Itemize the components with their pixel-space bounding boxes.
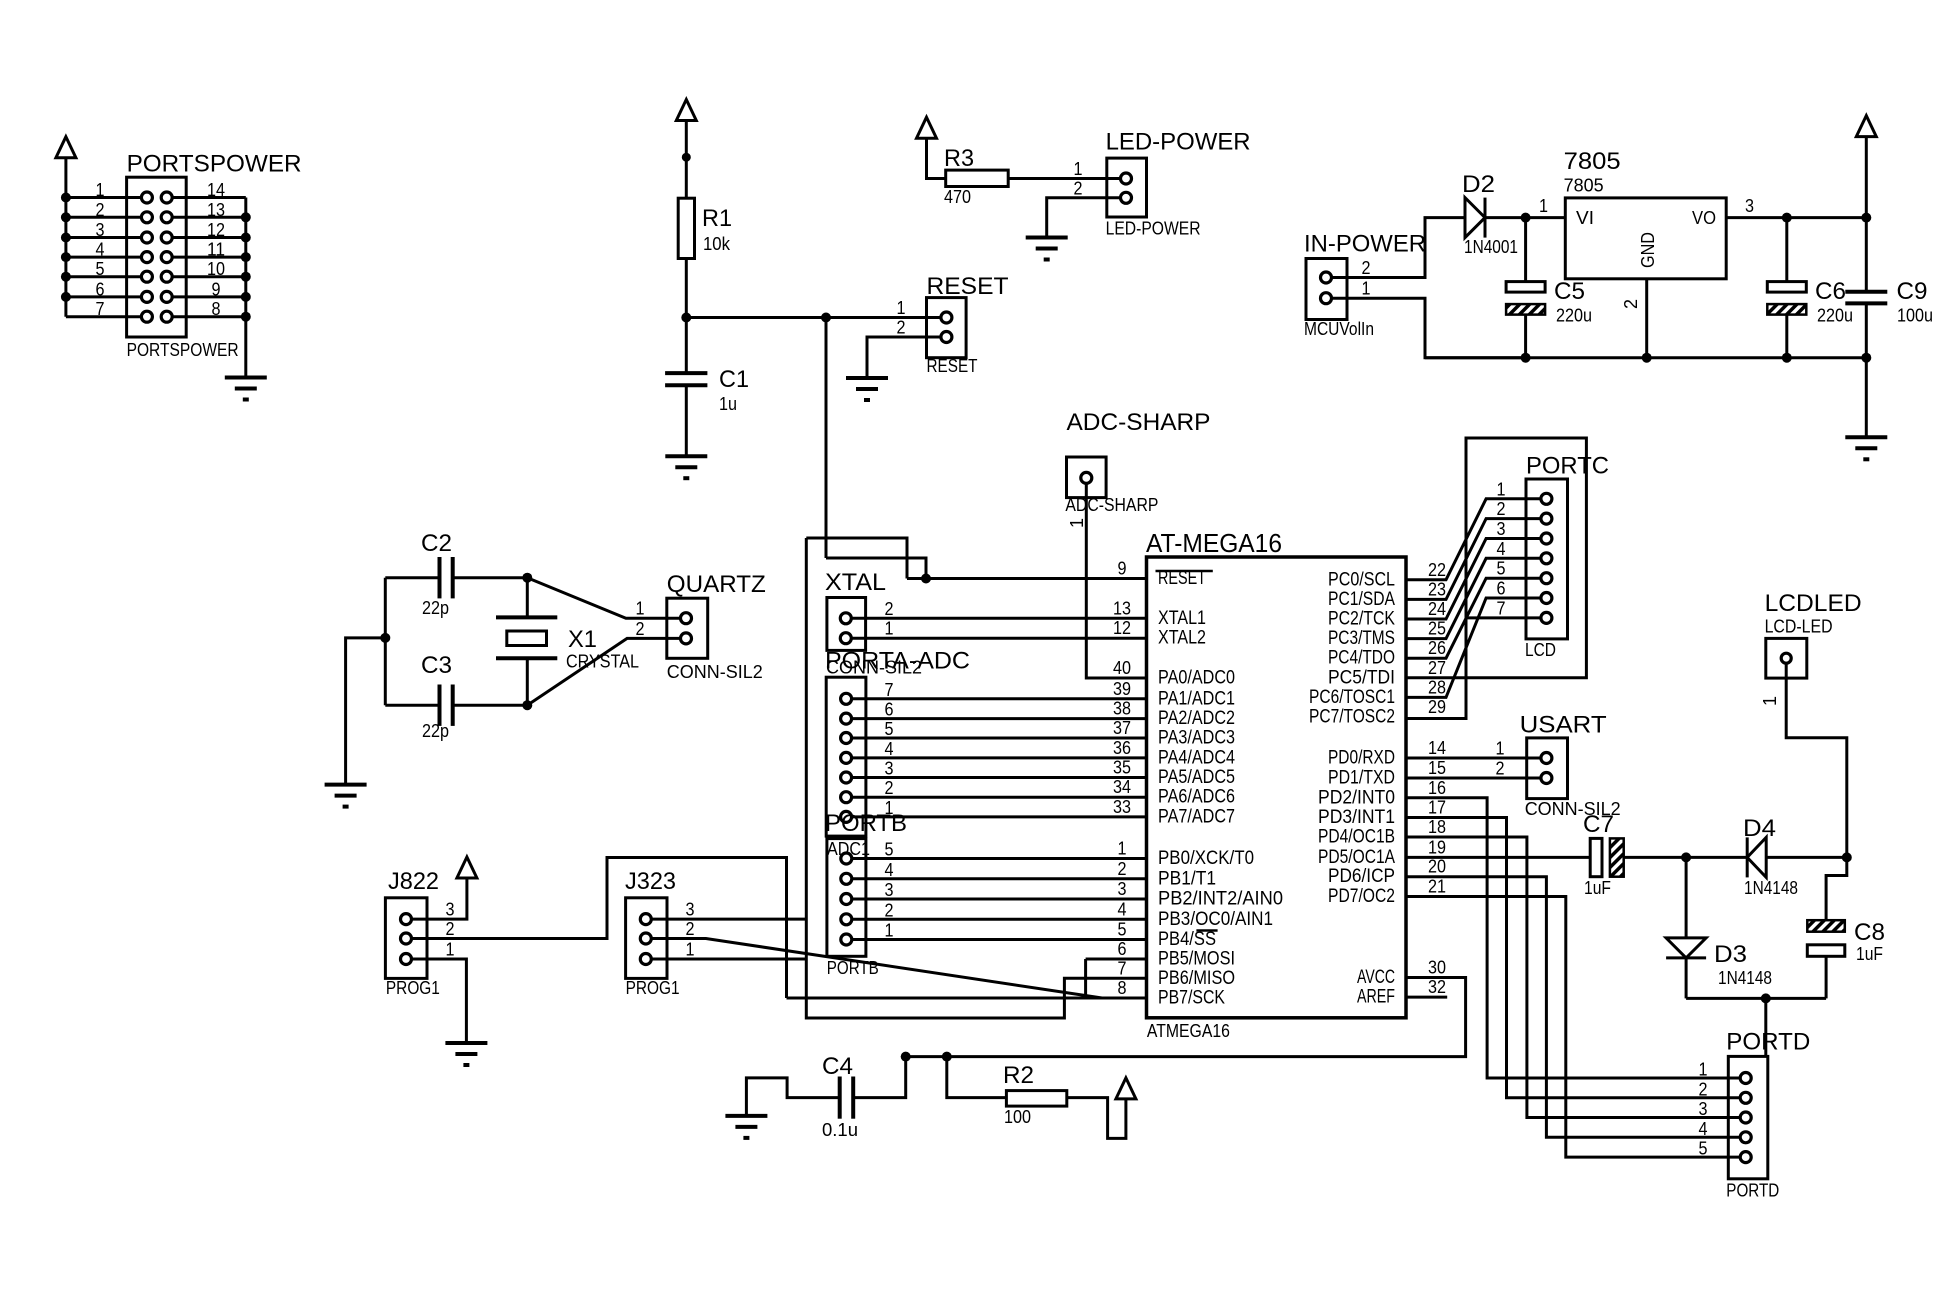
ground (XTAL): [325, 783, 367, 787]
svg-text:220u: 220u: [1556, 306, 1592, 326]
wire 7805 VO rail: [1726, 216, 1866, 219]
svg-text:3: 3: [1497, 519, 1506, 539]
svg-text:PC2/TCK: PC2/TCK: [1328, 609, 1395, 630]
wire PD5 to C7: [1406, 856, 1590, 859]
wire to PORTD: [1764, 998, 1767, 1057]
svg-text:PA6/ADC6: PA6/ADC6: [1158, 787, 1235, 808]
wire PORTSPOWER pin 8: [173, 315, 246, 318]
wire PORTSPOWER pin 13: [173, 216, 246, 219]
node gnd junction: [380, 633, 390, 643]
svg-text:2: 2: [897, 318, 906, 338]
svg-text:1: 1: [897, 298, 906, 318]
svg-text:1: 1: [1539, 196, 1548, 216]
svg-text:32: 32: [1428, 977, 1446, 997]
svg-text:PORTD: PORTD: [1726, 1029, 1810, 1056]
svg-text:7: 7: [1497, 598, 1506, 618]
wire AVCC route: [906, 978, 1466, 1057]
junction: [61, 233, 71, 243]
svg-text:2: 2: [885, 599, 894, 619]
svg-text:C6: C6: [1815, 278, 1846, 305]
wire PC0 to PORTC1: [1406, 499, 1540, 580]
svg-text:12: 12: [207, 220, 225, 240]
svg-text:1N4148: 1N4148: [1744, 878, 1798, 898]
svg-text:6: 6: [1497, 579, 1506, 599]
svg-text:D3: D3: [1714, 941, 1747, 968]
svg-text:1: 1: [1497, 479, 1506, 499]
svg-text:2: 2: [1497, 499, 1506, 519]
crystal X1: [522, 573, 532, 583]
wire PD1 to USART2: [1406, 777, 1540, 780]
connector QUARTZ: [667, 598, 708, 658]
svg-text:PB2/INT2/AIN0: PB2/INT2/AIN0: [1158, 889, 1283, 910]
svg-text:7: 7: [1118, 958, 1127, 978]
svg-text:100u: 100u: [1897, 306, 1933, 326]
svg-text:LCDLED: LCDLED: [1765, 590, 1862, 617]
svg-text:11: 11: [207, 240, 225, 260]
svg-text:PA7/ADC7: PA7/ADC7: [1158, 806, 1235, 827]
svg-text:1N4148: 1N4148: [1718, 968, 1772, 988]
svg-text:220u: 220u: [1817, 306, 1853, 326]
svg-text:1: 1: [885, 619, 894, 639]
svg-text:6: 6: [885, 700, 894, 720]
svg-text:C9: C9: [1897, 278, 1928, 305]
resistor R3: [946, 170, 1009, 186]
wire PB6 route: [806, 538, 1146, 1018]
connector XTAL: [827, 598, 866, 651]
svg-text:IN-POWER: IN-POWER: [1304, 231, 1426, 258]
IC U2 AT-MEGA16: [1147, 557, 1407, 1018]
power rail VCC arrow (PORTSPOWER): [56, 137, 76, 158]
power VCC arrow (R1): [676, 100, 696, 121]
svg-text:PA3/ADC3: PA3/ADC3: [1158, 728, 1235, 749]
svg-text:1: 1: [1066, 518, 1087, 528]
svg-text:PD4/OC1B: PD4/OC1B: [1318, 827, 1395, 848]
svg-text:4: 4: [96, 240, 105, 260]
junction: [1761, 993, 1771, 1003]
svg-text:PC0/SCL: PC0/SCL: [1328, 569, 1395, 590]
wire PD2 to PORTD1: [1406, 798, 1739, 1078]
wire PORTA-ADC pin 2 to PA6: [852, 796, 1146, 799]
svg-text:8: 8: [212, 299, 221, 319]
wire PORTSPOWER pin 2: [66, 216, 141, 219]
svg-text:4: 4: [885, 860, 894, 880]
svg-text:18: 18: [1428, 817, 1446, 837]
junction: [241, 212, 251, 222]
svg-text:1: 1: [1759, 696, 1780, 706]
svg-text:2: 2: [1118, 859, 1127, 879]
svg-text:PA0/ADC0: PA0/ADC0: [1158, 668, 1235, 689]
capacitor C1: [685, 318, 688, 374]
svg-text:1N4001: 1N4001: [1464, 237, 1518, 257]
svg-text:30: 30: [1428, 958, 1446, 978]
svg-text:3: 3: [446, 900, 455, 920]
svg-text:4: 4: [1497, 539, 1506, 559]
svg-text:PB6/MISO: PB6/MISO: [1158, 968, 1235, 989]
wire PORTB pin 3 to PB2: [853, 898, 1147, 901]
wire PORTSPOWER pin 10: [173, 275, 246, 278]
power VCC arrow (J822): [457, 857, 477, 878]
svg-text:13: 13: [1113, 598, 1131, 618]
svg-text:33: 33: [1113, 797, 1131, 817]
power VCC arrow (R3): [917, 117, 937, 138]
resistor R2 100: [947, 1057, 1007, 1098]
svg-text:USART: USART: [1520, 712, 1607, 739]
svg-text:C5: C5: [1554, 278, 1585, 305]
svg-text:21: 21: [1428, 877, 1446, 897]
wire AREF stub: [1406, 996, 1447, 999]
wire PORTA-ADC pin 5 to PA3: [852, 737, 1146, 740]
svg-text:C4: C4: [822, 1053, 853, 1080]
wire PC5 loop to PORTC7: [1406, 438, 1586, 719]
svg-text:27: 27: [1428, 658, 1446, 678]
wire R1 to RESET node: [685, 259, 688, 318]
svg-text:PB5/MOSI: PB5/MOSI: [1158, 949, 1235, 970]
svg-text:1: 1: [1074, 159, 1083, 179]
svg-text:1: 1: [96, 180, 105, 200]
wire PORTA-ADC pin 4 to PA4: [852, 756, 1146, 759]
svg-text:PA4/ADC4: PA4/ADC4: [1158, 747, 1235, 768]
svg-text:22: 22: [1428, 560, 1446, 580]
svg-text:PORTB: PORTB: [825, 810, 907, 837]
wire RESET to MCU pin 9: [907, 577, 1147, 580]
junction: [61, 212, 71, 222]
svg-text:4: 4: [1118, 899, 1127, 919]
svg-text:PD3/INT1: PD3/INT1: [1318, 807, 1395, 828]
svg-text:6: 6: [96, 279, 105, 299]
junction node: [1681, 852, 1691, 862]
svg-text:J822: J822: [388, 868, 439, 895]
svg-text:ATMEGA16: ATMEGA16: [1147, 1020, 1230, 1041]
svg-text:PORTA-ADC: PORTA-ADC: [825, 648, 970, 675]
svg-text:0.1u: 0.1u: [822, 1120, 858, 1140]
connector PORTSPOWER (2x7 header): [127, 177, 187, 337]
svg-text:5: 5: [885, 840, 894, 860]
wire R3 to LED-POWER: [1008, 177, 1120, 180]
svg-text:37: 37: [1113, 718, 1131, 738]
connector PORTA-ADC: [826, 677, 866, 836]
svg-text:ADC-SHARP: ADC-SHARP: [1067, 409, 1211, 436]
wire PD7 to PORTD5: [1406, 897, 1739, 1158]
wire PORTB pin 5 to PB0: [853, 857, 1147, 860]
svg-text:1: 1: [1362, 279, 1371, 299]
connector PORTB: [827, 839, 866, 957]
svg-text:PC7/TOSC2: PC7/TOSC2: [1309, 707, 1395, 728]
wire to ground: [346, 638, 386, 785]
svg-text:3: 3: [885, 759, 894, 779]
svg-text:7805: 7805: [1564, 148, 1621, 175]
wire J323 pin2 diagonal to SCK: [652, 939, 1102, 999]
svg-text:PB4/SS: PB4/SS: [1158, 929, 1216, 950]
wire D2 to 7805 VI: [1485, 216, 1565, 219]
wire PC3 to PORTC4: [1406, 558, 1540, 638]
wire J323 pin1: [652, 958, 806, 961]
svg-text:470: 470: [944, 187, 971, 207]
wire PC4 to PORTC5: [1406, 578, 1540, 658]
svg-text:D2: D2: [1462, 171, 1495, 198]
svg-text:17: 17: [1428, 798, 1446, 818]
connector PORTD: [1728, 1056, 1768, 1178]
wire C8 down: [1825, 956, 1828, 998]
svg-text:9: 9: [212, 279, 221, 299]
svg-text:C7: C7: [1583, 811, 1614, 838]
wire PB5 riser: [1084, 959, 1087, 998]
svg-text:PB0/XCK/T0: PB0/XCK/T0: [1158, 848, 1254, 869]
svg-text:100: 100: [1004, 1107, 1031, 1127]
wire PORTC pin7: [1466, 616, 1540, 619]
connector USART: [1527, 738, 1568, 799]
svg-text:VO: VO: [1692, 207, 1716, 228]
wire RESET pin2 to ground: [867, 337, 940, 378]
wire ADC-SHARP to PA0: [1086, 484, 1146, 678]
svg-text:14: 14: [207, 180, 225, 200]
svg-text:23: 23: [1428, 579, 1446, 599]
svg-text:AVCC: AVCC: [1357, 967, 1395, 988]
svg-text:PD7/OC2: PD7/OC2: [1328, 886, 1395, 907]
svg-text:7805: 7805: [1564, 175, 1604, 196]
svg-text:R2: R2: [1003, 1062, 1034, 1089]
svg-text:3: 3: [885, 880, 894, 900]
wire PC2 to PORTC3: [1406, 539, 1540, 620]
svg-text:R1: R1: [702, 205, 732, 232]
wire PORTB pin 4 to PB1: [853, 877, 1147, 880]
svg-text:1u: 1u: [719, 394, 737, 414]
regulator U1 7805: [1565, 198, 1726, 279]
svg-text:PD2/INT0: PD2/INT0: [1318, 787, 1395, 808]
svg-text:PD0/RXD: PD0/RXD: [1328, 748, 1395, 769]
svg-text:35: 35: [1113, 758, 1131, 778]
svg-text:ADC-SHARP: ADC-SHARP: [1065, 494, 1158, 515]
svg-text:36: 36: [1113, 738, 1131, 758]
svg-text:RESET: RESET: [927, 355, 978, 376]
svg-text:1: 1: [1118, 839, 1127, 859]
svg-text:LED-POWER: LED-POWER: [1106, 218, 1201, 239]
wire LED-POWER pin2 to ground: [1047, 198, 1120, 238]
svg-text:LED-POWER: LED-POWER: [1106, 129, 1251, 156]
svg-text:8: 8: [1118, 978, 1127, 998]
svg-text:PC3/TMS: PC3/TMS: [1328, 628, 1395, 649]
svg-text:PB1/T1: PB1/T1: [1158, 868, 1216, 889]
svg-text:10: 10: [207, 259, 225, 279]
svg-text:PB7/SCK: PB7/SCK: [1158, 988, 1225, 1009]
svg-text:10k: 10k: [703, 234, 731, 254]
svg-text:1uF: 1uF: [1584, 878, 1611, 898]
svg-text:PD1/TXD: PD1/TXD: [1328, 768, 1395, 789]
wire PD6 to PORTD4: [1406, 877, 1739, 1138]
diode D2 1N4001: [1465, 198, 1485, 238]
svg-text:6: 6: [1118, 939, 1127, 959]
svg-text:2: 2: [636, 619, 645, 639]
svg-text:20: 20: [1428, 857, 1446, 877]
wire PORTA-ADC pin 3 to PA5: [852, 776, 1146, 779]
wire J822 pin1 to ground: [412, 959, 466, 1043]
svg-text:2: 2: [1496, 759, 1505, 779]
svg-text:5: 5: [885, 719, 894, 739]
svg-text:C2: C2: [421, 530, 452, 557]
wire PORTSPOWER right rail: [244, 198, 247, 378]
svg-text:2: 2: [885, 778, 894, 798]
svg-text:PA2/ADC2: PA2/ADC2: [1158, 708, 1235, 729]
junction: [61, 292, 71, 302]
ground (C1): [665, 454, 707, 458]
svg-text:2: 2: [1620, 299, 1641, 309]
ground (J822): [445, 1041, 487, 1045]
wire PORTB pin 2 to PB3: [853, 918, 1147, 921]
wire XTAL pin1 to XTAL2: [852, 637, 1146, 640]
wire XTAL pin2 to XTAL1: [852, 617, 1146, 620]
wire R2 to VCC: [1067, 1098, 1126, 1139]
svg-text:38: 38: [1113, 699, 1131, 719]
wire PC1 to PORTC2: [1406, 519, 1540, 600]
wire to PSU ground: [1865, 358, 1868, 438]
wire PD4 to PORTD3: [1406, 837, 1739, 1118]
svg-text:5: 5: [96, 259, 105, 279]
wire PORTA-ADC pin 7 to PA1: [852, 697, 1146, 700]
svg-text:QUARTZ: QUARTZ: [667, 571, 766, 598]
svg-text:PC6/TOSC1: PC6/TOSC1: [1309, 687, 1395, 708]
svg-text:PB3/OC0/AIN1: PB3/OC0/AIN1: [1158, 909, 1273, 930]
connector LED-POWER: [1107, 158, 1147, 217]
wire J822 pin3 to VCC: [412, 878, 467, 919]
wire D3 to C8 bottom: [1685, 958, 1688, 999]
svg-text:29: 29: [1428, 697, 1446, 717]
ground (C4): [725, 1114, 767, 1118]
wire J323 pin3: [652, 918, 806, 921]
wire PORTSPOWER pin 6: [66, 295, 141, 298]
wire PORTB pin 1 to PB4: [853, 938, 1147, 941]
power VCC arrow (7805 out): [1856, 116, 1876, 137]
svg-text:4: 4: [885, 739, 894, 759]
svg-text:PA5/ADC5: PA5/ADC5: [1158, 767, 1235, 788]
svg-text:D4: D4: [1743, 815, 1776, 842]
svg-text:15: 15: [1428, 758, 1446, 778]
wire IN-POWER pin2 to D2: [1332, 218, 1465, 278]
svg-text:PD6/ICP: PD6/ICP: [1328, 866, 1395, 887]
power VCC arrow (R2): [1116, 1078, 1136, 1099]
svg-text:LCD: LCD: [1525, 639, 1556, 660]
svg-text:34: 34: [1113, 777, 1131, 797]
svg-text:1: 1: [1496, 739, 1505, 759]
svg-text:PORTSPOWER: PORTSPOWER: [127, 151, 302, 178]
svg-text:3: 3: [96, 220, 105, 240]
svg-text:MCUVolIn: MCUVolIn: [1304, 318, 1374, 339]
svg-text:7: 7: [96, 299, 105, 319]
svg-text:PROG1: PROG1: [386, 977, 440, 998]
junction node VI: [1521, 213, 1531, 223]
svg-text:5: 5: [1118, 920, 1127, 940]
ground (RESET): [846, 376, 888, 380]
resistor R1: [678, 198, 694, 258]
diode D4 1N4148: [1747, 837, 1766, 877]
wire RESET jog: [826, 558, 926, 579]
wire ground rail: [1425, 356, 1866, 359]
junction: [241, 272, 251, 282]
wire to C8: [1826, 857, 1847, 920]
svg-text:9: 9: [1118, 559, 1127, 579]
svg-text:3: 3: [1118, 879, 1127, 899]
junction: [241, 292, 251, 302]
wire PORTSPOWER pin 3: [66, 236, 141, 239]
wire PORTSPOWER pin 4: [66, 256, 141, 259]
svg-text:2: 2: [686, 919, 695, 939]
connector J323: [626, 898, 667, 979]
wire D4 to LCDLED node: [1766, 856, 1847, 859]
wire PORTSPOWER pin 5: [66, 275, 141, 278]
svg-text:XTAL2: XTAL2: [1158, 628, 1206, 649]
diode D3 1N4148: [1685, 857, 1688, 938]
svg-text:PC4/TDO: PC4/TDO: [1328, 648, 1395, 669]
junction: [901, 1052, 911, 1062]
svg-text:PROG1: PROG1: [626, 977, 680, 998]
wire C2-C3 left rail: [384, 578, 387, 706]
svg-text:1: 1: [636, 599, 645, 619]
wire PORTA-ADC pin 1 to PA7: [852, 815, 1146, 818]
svg-text:VI: VI: [1576, 207, 1594, 228]
wire PORTSPOWER pin 7: [66, 315, 141, 318]
wire IN-POWER pin1 to ground rail: [1332, 298, 1525, 358]
wire PC6 to PORTC6: [1406, 598, 1540, 697]
svg-text:3: 3: [1745, 196, 1754, 216]
wire PORTA-ADC pin 6 to PA2: [852, 717, 1146, 720]
wire RESET net horizontal: [686, 316, 940, 319]
svg-text:2: 2: [1362, 258, 1371, 278]
junction: [61, 252, 71, 262]
svg-text:PC5/TDI: PC5/TDI: [1328, 667, 1395, 688]
svg-text:PORTC: PORTC: [1526, 453, 1609, 480]
wire PORTSPOWER pin 9: [173, 295, 246, 298]
junction: [921, 574, 931, 584]
svg-text:2: 2: [885, 900, 894, 920]
wire PORTSPOWER pin 14: [173, 196, 246, 199]
wire PD0 to USART1: [1406, 757, 1540, 760]
svg-text:25: 25: [1428, 619, 1446, 639]
junction node: [682, 153, 691, 162]
svg-text:AREF: AREF: [1357, 987, 1395, 1008]
wire RESET net down to MCU: [825, 318, 828, 559]
wire 7805 GND pin 2: [1645, 279, 1648, 358]
junction: [1842, 852, 1852, 862]
connector IN-POWER: [1306, 259, 1347, 320]
svg-text:LCD-LED: LCD-LED: [1765, 616, 1833, 637]
svg-text:PD5/OC1A: PD5/OC1A: [1318, 847, 1395, 868]
svg-text:2: 2: [446, 919, 455, 939]
wire X1 to QUARTZ pin2: [527, 638, 679, 705]
svg-text:22p: 22p: [422, 721, 449, 741]
wire PORTSPOWER pin 12: [173, 236, 246, 239]
connector RESET: [927, 298, 967, 358]
svg-text:1: 1: [885, 921, 894, 941]
junction: [241, 252, 251, 262]
svg-text:1uF: 1uF: [1856, 944, 1883, 964]
connector J822: [385, 898, 427, 979]
wire PORTSPOWER pin 1: [66, 196, 141, 199]
svg-text:16: 16: [1428, 778, 1446, 798]
capacitor C3 22p: [385, 704, 439, 707]
svg-text:1: 1: [446, 940, 455, 960]
wire C7 to D4: [1624, 856, 1748, 859]
svg-text:CONN-SIL2: CONN-SIL2: [667, 661, 763, 682]
wire PB7 long net: [787, 997, 1147, 1000]
svg-text:C3: C3: [421, 652, 452, 679]
svg-text:19: 19: [1428, 837, 1446, 857]
capacitor C8 1uF: [1807, 920, 1845, 932]
capacitor C5 220u: [1524, 218, 1527, 282]
node RESET junction: [681, 313, 691, 323]
svg-text:XTAL1: XTAL1: [1158, 608, 1206, 629]
ground (PORTSPOWER): [225, 376, 267, 380]
svg-text:C1: C1: [719, 366, 749, 393]
ground (LED-POWER): [1026, 236, 1068, 240]
svg-text:XTAL: XTAL: [825, 569, 886, 596]
